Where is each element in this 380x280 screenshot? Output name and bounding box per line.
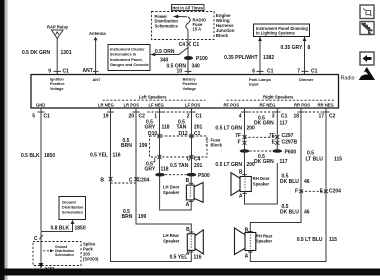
svg-text:18: 18	[293, 114, 299, 120]
ground distribution schematics tiny text in splice box	[55, 245, 74, 257]
svg-text:LF POS: LF POS	[185, 102, 200, 107]
LR NEG label	[98, 102, 114, 107]
svg-text:17: 17	[318, 114, 324, 120]
svg-text:LH Door: LH Door	[163, 185, 180, 190]
label 0.5 LT BLU 115 first	[306, 151, 343, 163]
dashed connector line P600	[250, 150, 273, 152]
instrument panel dimming box	[254, 24, 310, 37]
battery positive voltage label	[183, 78, 198, 91]
svg-text:C297: C297	[282, 133, 294, 139]
wire GRY LF NEG from pin 1	[159, 108, 161, 173]
wire DK GRN 1301 to radio pin 9	[56, 39, 58, 75]
Engine Wiring Harness Junction Block text	[216, 13, 235, 38]
svg-text:C1: C1	[44, 114, 51, 120]
fuse block connector D12 C1	[179, 131, 201, 138]
svg-text:C297B: C297B	[282, 140, 298, 146]
wire DK GRN RF NEG from pin 3	[276, 108, 278, 150]
svg-text:Gauges and Console: Gauges and Console	[110, 62, 150, 67]
connector F C297B	[237, 140, 246, 146]
label 0.5 DK GRN 1301	[22, 50, 72, 56]
radio pin 17 C2	[318, 112, 335, 120]
wire GRY down to LH door A loop	[160, 177, 192, 211]
svg-text:RF NEG: RF NEG	[260, 102, 276, 107]
svg-text:0.35 PPL/WHT: 0.35 PPL/WHT	[224, 55, 258, 61]
svg-text:0.5 LT GRN: 0.5 LT GRN	[215, 126, 242, 132]
svg-text:RR NEG: RR NEG	[318, 102, 334, 107]
radio pin 20 C2	[128, 112, 145, 120]
svg-text:116: 116	[194, 255, 202, 261]
antenna arrow symbol	[94, 37, 98, 41]
toolbar button stairs B2	[360, 22, 374, 35]
label 0.35 PPL/WHT 1382	[224, 55, 274, 61]
svg-text:9: 9	[48, 68, 51, 74]
svg-text:199: 199	[139, 143, 148, 149]
label 0.5 DK GRN 117 first	[254, 116, 288, 127]
LR POS label	[124, 102, 140, 107]
svg-text:RAP Relay: RAP Relay	[47, 24, 69, 29]
radio pin 1	[154, 112, 163, 120]
branch wire to instrument cluster	[150, 48, 188, 57]
wire GRY 8 to radio pin 7	[303, 37, 307, 75]
svg-text:115: 115	[329, 237, 337, 243]
svg-text:BRN: BRN	[122, 214, 133, 220]
svg-text:LF NEG: LF NEG	[149, 102, 164, 107]
svg-text:LR POS: LR POS	[124, 102, 140, 107]
svg-text:10: 10	[176, 69, 182, 75]
svg-text:C1: C1	[193, 42, 200, 48]
label 0.5 TAN 201 second	[170, 163, 203, 169]
GND internal label	[36, 102, 45, 107]
svg-text:TAN: TAN	[177, 125, 187, 131]
fuse RADIO 15A symbol	[186, 17, 190, 30]
label 0.5 ORN 340 main	[167, 64, 201, 70]
label 0.5 ORN 340 branch	[155, 49, 175, 64]
svg-text:C1: C1	[267, 68, 274, 74]
svg-text:0.5 YEL: 0.5 YEL	[170, 255, 188, 261]
svg-text:ANT: ANT	[83, 68, 93, 74]
splice pack 203 label	[83, 241, 99, 261]
alldata logo triangle	[358, 67, 375, 80]
svg-text:Dimmer: Dimmer	[299, 77, 314, 82]
label 0.5 DK BLU 46 first	[280, 174, 310, 186]
node B on YEL wire C204	[100, 177, 112, 184]
svg-text:7F: 7F	[235, 133, 241, 139]
svg-text:F: F	[295, 189, 298, 195]
svg-text:C1: C1	[194, 131, 201, 137]
svg-text:E: E	[272, 140, 276, 146]
svg-text:LR NEG: LR NEG	[98, 102, 114, 107]
LF POS label	[185, 102, 200, 107]
svg-text:19: 19	[103, 114, 109, 120]
svg-text:Positive: Positive	[50, 82, 65, 86]
svg-text:Speaker: Speaker	[253, 181, 270, 186]
svg-text:GRY: GRY	[145, 125, 156, 131]
ANT internal label	[93, 78, 101, 82]
svg-text:C2: C2	[329, 114, 336, 120]
svg-text:Input: Input	[249, 82, 259, 87]
wire PPL/WHT 1382 to radio pin 6	[258, 37, 262, 75]
svg-text:4: 4	[239, 114, 242, 120]
svg-text:Speaker: Speaker	[163, 238, 180, 243]
svg-text:Speaker: Speaker	[256, 239, 273, 244]
wire into splice pack	[40, 232, 42, 265]
svg-text:DK BLU: DK BLU	[280, 179, 299, 185]
toolbar button back-arrow B3	[360, 52, 374, 65]
svg-text:RH Rear: RH Rear	[256, 233, 273, 238]
label 0.5 GRY 118 second	[145, 162, 169, 173]
svg-text:P500: P500	[198, 173, 210, 179]
svg-text:0.5 ORN: 0.5 ORN	[155, 49, 175, 55]
radio pin 18	[293, 112, 304, 120]
radio pin 4	[239, 112, 248, 120]
svg-text:Left Speakers: Left Speakers	[139, 94, 167, 99]
svg-text:E: E	[320, 189, 324, 195]
svg-text:2: 2	[187, 114, 190, 120]
svg-text:118: 118	[161, 167, 169, 173]
svg-text:6: 6	[252, 68, 255, 74]
connector ellipse on GRY at P500	[155, 173, 165, 177]
wire LT BLU down to RH rear A	[250, 191, 326, 261]
svg-text:GRY: GRY	[145, 167, 156, 173]
wire TAN LF POS from pin 2	[190, 108, 192, 185]
label 0.8 BLK 1850	[51, 226, 86, 232]
dashed connector line C204 right	[301, 190, 326, 192]
LH rear speaker symbol	[187, 230, 203, 254]
label 0.5 BRN 199 first	[121, 138, 148, 149]
Antenna label	[89, 31, 106, 36]
svg-text:RF POS: RF POS	[224, 102, 240, 107]
svg-text:15 A: 15 A	[193, 27, 202, 32]
svg-text:Positive: Positive	[183, 82, 198, 86]
svg-text:0.5 BLK: 0.5 BLK	[21, 153, 40, 159]
svg-text:1382: 1382	[263, 55, 274, 61]
right speakers bracket	[227, 94, 336, 100]
svg-text:Hot in All Times: Hot in All Times	[172, 5, 203, 10]
radio pin 3 C1	[272, 112, 288, 120]
pin A RH door	[239, 193, 247, 199]
RH rear speaker label	[256, 233, 273, 243]
node C on BRN wire C204	[129, 177, 150, 184]
svg-text:46: 46	[304, 209, 310, 215]
ground distribution schematics box	[59, 197, 86, 220]
RF POS label	[224, 102, 240, 107]
svg-text:DK BLU: DK BLU	[280, 209, 299, 215]
svg-text:0.5 LT BLU: 0.5 LT BLU	[297, 237, 323, 243]
radio pin 6 C1	[252, 68, 273, 74]
svg-text:117: 117	[280, 121, 288, 127]
svg-text:5: 5	[32, 114, 35, 120]
svg-text:Voltage: Voltage	[50, 87, 63, 91]
svg-text:7: 7	[297, 68, 300, 74]
frame left black bar	[0, 0, 8, 280]
label 0.5 YEL 116 bottom	[170, 255, 202, 261]
svg-text:0.35 GRY: 0.35 GRY	[281, 45, 303, 51]
svg-text:C1: C1	[196, 114, 203, 120]
svg-text:0.5 DK GRN: 0.5 DK GRN	[22, 50, 50, 56]
connector F C204 right	[295, 189, 303, 195]
svg-text:D12: D12	[179, 131, 188, 137]
label 0.5 TAN 201 first	[177, 120, 203, 131]
svg-text:C1: C1	[311, 68, 318, 74]
connector E C204 right	[320, 189, 342, 195]
left speakers bracket	[103, 94, 206, 100]
pin B RH door	[239, 170, 247, 176]
RH door speaker symbol	[231, 173, 251, 196]
pin A LH door	[186, 202, 194, 208]
svg-text:Antenna: Antenna	[89, 31, 106, 36]
wire RH door A loop	[245, 163, 278, 204]
splice pack dashed box	[33, 242, 81, 266]
pin B LH door	[186, 178, 194, 184]
svg-text:Voltage: Voltage	[183, 87, 196, 91]
label 0.5 DK BLU 46 second	[280, 204, 310, 216]
wire LT BLU RR NEG from pin 17	[325, 108, 327, 191]
svg-text:DK GRN: DK GRN	[254, 121, 274, 127]
wire BRN LR POS from pin 20	[136, 108, 191, 234]
wire BLK ground from pin 5	[40, 108, 42, 231]
svg-text:Block: Block	[216, 33, 229, 38]
node C on ground wire	[34, 235, 43, 242]
svg-text:LT BLU: LT BLU	[306, 157, 324, 163]
svg-text:0.8 BLK: 0.8 BLK	[51, 226, 70, 232]
svg-text:199: 199	[138, 214, 147, 220]
svg-text:B: B	[239, 170, 243, 176]
fuse block label	[206, 138, 223, 148]
LH door speaker label	[163, 185, 180, 195]
svg-text:RH Door: RH Door	[253, 176, 270, 181]
svg-text:C: C	[187, 157, 191, 163]
pin A RH rear	[245, 252, 253, 260]
wire YEL LR NEG from pin 19	[111, 108, 192, 262]
wire antenna to radio ANT	[95, 40, 97, 75]
label 0.5 YEL 116	[90, 153, 121, 159]
svg-text:0.5 TAN: 0.5 TAN	[170, 163, 189, 169]
svg-text:LH Rear: LH Rear	[163, 233, 179, 238]
svg-text:C1: C1	[63, 68, 70, 74]
svg-text:(SP203): (SP203)	[83, 256, 99, 261]
connector P600 on DK GRN	[273, 149, 297, 155]
label 0.5 LT GRN 200 second	[215, 162, 255, 168]
svg-text:F: F	[237, 140, 240, 146]
dashed connector line C297	[245, 136, 278, 138]
svg-text:G203: G203	[45, 266, 56, 271]
radio pin 5 C1	[32, 112, 50, 120]
arrow to power distribution text	[173, 15, 187, 19]
svg-text:C: C	[129, 178, 133, 184]
radio label	[341, 76, 355, 82]
label 0.5 BLK 1850	[21, 153, 55, 159]
connector P600 on LT GRN	[240, 149, 250, 153]
svg-text:Battery: Battery	[183, 78, 197, 82]
radio pin 2 C1	[187, 112, 202, 120]
label RADIO Fuse 15 A	[193, 17, 207, 31]
svg-text:ANT: ANT	[93, 78, 101, 82]
park lamps input label	[249, 77, 271, 87]
LH rear speaker label	[163, 233, 180, 243]
svg-text:8: 8	[308, 45, 311, 51]
svg-text:J: J	[153, 159, 156, 165]
svg-text:340: 340	[192, 64, 201, 70]
svg-text:0.5 LT GRN: 0.5 LT GRN	[215, 162, 242, 168]
label 0.5 GRY 118 first	[145, 120, 170, 131]
toolbar button zoom-select B1	[360, 5, 374, 19]
svg-text:1850: 1850	[75, 226, 86, 232]
connector P500 on TAN	[187, 173, 210, 179]
wire LT GRN RF POS from pin 4	[244, 108, 246, 177]
svg-text:20: 20	[128, 114, 134, 120]
svg-text:Distribution: Distribution	[62, 206, 84, 210]
dashed connector line P500	[165, 174, 187, 176]
svg-text:in Lighting Systems: in Lighting Systems	[256, 31, 296, 36]
RR NEG label	[318, 102, 334, 107]
pin B RH rear	[245, 227, 253, 233]
svg-text:7E: 7E	[269, 133, 276, 139]
instrument cluster schematics box	[108, 45, 150, 71]
LF NEG label	[149, 102, 164, 107]
label 0.5 LT GRN 200 first	[215, 126, 255, 132]
svg-text:46: 46	[304, 179, 310, 185]
ignition positive voltage label	[50, 78, 65, 91]
svg-text:Speaker: Speaker	[163, 190, 180, 195]
radio box	[31, 75, 339, 109]
svg-text:C204: C204	[329, 189, 341, 195]
dashed connector line C204 left	[111, 182, 137, 184]
dashed arrow to text	[43, 249, 54, 252]
svg-text:1850: 1850	[44, 153, 55, 159]
RAP Relay label	[47, 24, 69, 29]
svg-text:RR POS: RR POS	[294, 102, 310, 107]
connector body dashes bottom pins	[148, 111, 323, 113]
fuse block exit J	[153, 155, 162, 165]
svg-text:P100: P100	[196, 56, 208, 62]
svg-text:Radio: Radio	[341, 76, 355, 82]
ground G203	[39, 263, 55, 271]
svg-text:C4: C4	[194, 157, 201, 163]
RH rear speaker symbol	[235, 228, 256, 255]
RF NEG label	[260, 102, 276, 107]
label 0.5 DK GRN 117 second	[254, 154, 288, 165]
svg-text:1301: 1301	[61, 50, 72, 56]
svg-text:115: 115	[334, 157, 342, 163]
svg-text:Schematics: Schematics	[55, 253, 74, 257]
svg-text:A: A	[186, 202, 190, 208]
branch wire 0.8 BLK to ground distribution	[41, 220, 74, 232]
connector 7E C297	[269, 133, 294, 139]
svg-text:C4: C4	[179, 42, 186, 48]
svg-text:Ignition: Ignition	[50, 78, 64, 82]
power distribution schematics text	[155, 14, 179, 28]
svg-text:C204: C204	[138, 178, 150, 184]
svg-text:P600: P600	[285, 149, 297, 155]
svg-text:1: 1	[154, 114, 157, 120]
svg-text:B: B	[100, 178, 104, 184]
label 0.5 BRN 199 second	[122, 209, 147, 220]
pin B LH rear	[186, 227, 193, 233]
svg-text:Right Speakers: Right Speakers	[263, 94, 294, 99]
svg-text:A: A	[239, 193, 243, 199]
radio pin 10	[176, 69, 191, 75]
LH door speaker symbol	[186, 183, 203, 203]
wire DK BLU RR POS from pin 18	[250, 108, 301, 233]
svg-text:116: 116	[113, 153, 121, 159]
svg-text:117: 117	[280, 159, 288, 165]
svg-text:201: 201	[194, 163, 203, 169]
pin A LH rear	[186, 251, 193, 257]
RH door speaker label	[253, 176, 270, 186]
svg-text:Schematics: Schematics	[62, 211, 83, 215]
frame bottom black bar	[0, 269, 380, 276]
Hot in All Times header box	[172, 5, 205, 11]
fuse block dashed box	[150, 136, 208, 157]
svg-text:A: A	[245, 254, 249, 260]
svg-text:BRN: BRN	[121, 143, 132, 149]
fuse block exit C C4	[187, 155, 201, 163]
svg-text:3: 3	[272, 114, 275, 120]
label 0.5 LT BLU 115 bottom	[297, 237, 338, 243]
connector P100	[184, 56, 208, 62]
radio pin 19	[103, 112, 114, 120]
svg-text:GND: GND	[36, 102, 45, 107]
svg-text:DK GRN: DK GRN	[254, 159, 274, 165]
RAP relay triangle symbol	[52, 30, 64, 39]
wire fuse to connector C4 C1	[187, 30, 189, 42]
svg-text:Ground: Ground	[62, 201, 76, 205]
svg-text:C2: C2	[139, 114, 146, 120]
svg-text:Schematics: Schematics	[155, 23, 179, 28]
dimmer label	[299, 77, 314, 82]
connector E C297B	[272, 140, 298, 146]
power distribution dashed box	[152, 12, 215, 40]
radio pin ANT	[83, 68, 99, 74]
connector 7F C297	[235, 133, 246, 139]
wire C4 to radio pin 10	[187, 46, 189, 75]
svg-text:0.5 YEL: 0.5 YEL	[90, 153, 108, 159]
connector C4 C1 X symbol	[179, 42, 200, 48]
fuse block connector D10	[148, 131, 162, 138]
svg-text:118: 118	[162, 125, 170, 131]
label 0.35 GRY 8	[281, 45, 311, 51]
svg-text:201: 201	[194, 125, 203, 131]
svg-text:C1: C1	[281, 114, 288, 120]
radio pin 9 C1	[48, 68, 69, 74]
svg-text:Block: Block	[211, 143, 223, 148]
radio pin 7 C1	[297, 68, 317, 74]
RR POS label	[294, 102, 310, 107]
